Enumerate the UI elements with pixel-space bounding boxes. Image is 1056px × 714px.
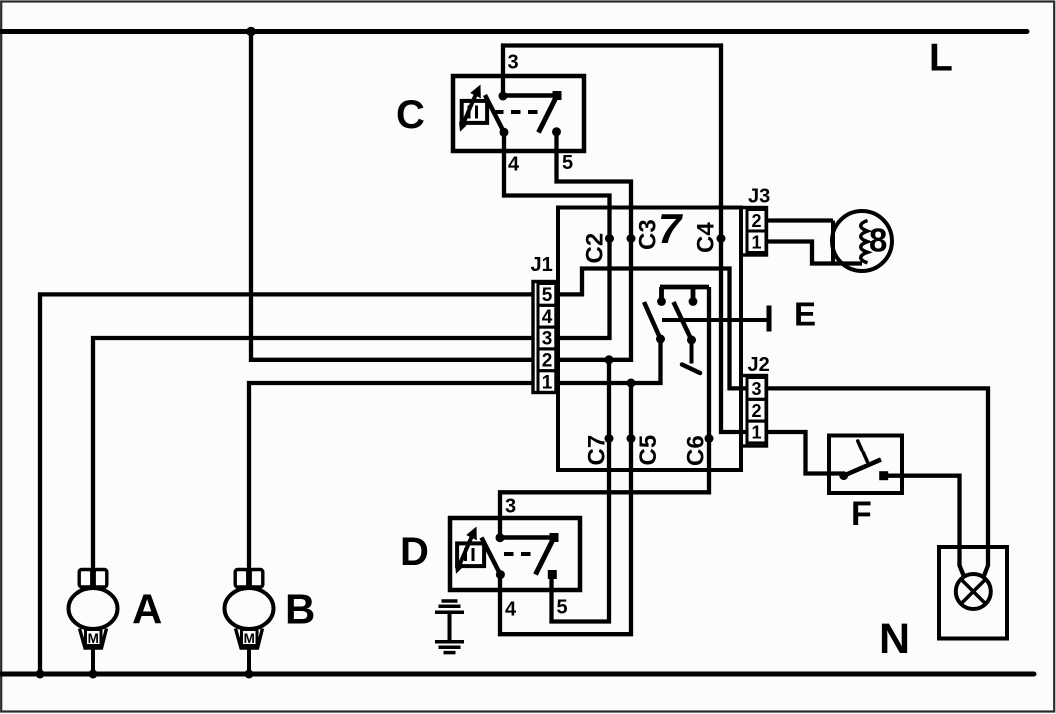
- svg-text:7: 7: [658, 205, 683, 252]
- wire E bracket: [660, 287, 709, 299]
- motor A: [69, 570, 118, 649]
- svg-text:3: 3: [751, 379, 761, 399]
- wire top bus L: [0, 29, 1027, 34]
- node J1-2 branch: [605, 355, 614, 364]
- wire relay C pin 4 to node C2: [504, 132, 610, 238]
- svg-text:C6: C6: [683, 435, 710, 466]
- svg-text:J2: J2: [748, 354, 770, 376]
- svg-text:4: 4: [505, 599, 517, 621]
- wire relay C pin 3 to node C4 to J2 pin 1: [503, 46, 748, 433]
- svg-text:M: M: [244, 631, 255, 646]
- svg-text:C: C: [396, 93, 425, 137]
- svg-text:1: 1: [751, 233, 761, 253]
- svg-text:J1: J1: [531, 254, 553, 276]
- svg-text:4: 4: [542, 307, 553, 328]
- svg-text:L: L: [929, 37, 953, 80]
- switch E pole 1: [644, 302, 665, 344]
- switch F: [829, 436, 902, 494]
- relay C dashed link: [494, 110, 538, 114]
- connector J3: [741, 208, 767, 256]
- node E contact 2: [689, 297, 698, 306]
- node C5: [627, 434, 636, 443]
- wire J3 pin 1 to motor 8: [766, 242, 862, 264]
- wire J1 pin 3 to node C2: [556, 240, 610, 338]
- svg-text:5: 5: [557, 597, 568, 619]
- motor 8: [832, 211, 892, 271]
- wire J1 pin 1 to motor B: [249, 383, 533, 578]
- node top bus junction: [246, 27, 256, 37]
- wire relay C pin 5 to node C3: [557, 132, 632, 239]
- svg-text:8: 8: [869, 222, 887, 259]
- svg-text:3: 3: [505, 496, 516, 518]
- connector J2: [741, 376, 767, 447]
- svg-text:2: 2: [751, 401, 761, 421]
- svg-text:D: D: [400, 530, 429, 574]
- svg-text:C5: C5: [635, 435, 662, 466]
- svg-text:1: 1: [542, 372, 553, 393]
- relay D box: [450, 518, 580, 590]
- motor B: [225, 570, 274, 649]
- ecu box 7: [558, 208, 741, 471]
- svg-text:2: 2: [542, 351, 553, 372]
- relay C coil: [459, 85, 487, 132]
- relay D coil: [455, 527, 484, 574]
- ground: [435, 601, 464, 653]
- wire J1 pin 2 to node C3: [556, 240, 631, 360]
- wire node C5 to relay D pin 4: [500, 383, 631, 634]
- node C7: [605, 434, 614, 443]
- svg-text:3: 3: [542, 329, 553, 350]
- connector J1: [533, 282, 556, 394]
- lamp N: [939, 547, 1007, 639]
- node C2: [605, 234, 614, 243]
- wire J2 pin 3 to lamp N: [766, 388, 988, 577]
- wire J2 pin 1 to switch F: [766, 432, 844, 474]
- relay C contact: [485, 91, 562, 137]
- svg-text:2: 2: [751, 211, 761, 231]
- relay C box: [453, 76, 584, 151]
- wire switch F to lamp N: [884, 476, 964, 577]
- svg-text:C7: C7: [584, 435, 611, 466]
- svg-text:A: A: [132, 586, 162, 633]
- svg-text:3: 3: [508, 52, 519, 74]
- wire E terminal: [662, 306, 769, 332]
- wire J1 pin 5 to bottom bus: [40, 294, 533, 674]
- svg-text:5: 5: [562, 152, 573, 174]
- node bottom bus junction A: [36, 670, 45, 679]
- svg-text:B: B: [285, 586, 315, 633]
- node bottom bus junction C: [245, 670, 254, 679]
- node bottom bus junction B: [89, 670, 98, 679]
- svg-text:4: 4: [508, 154, 520, 176]
- wire J1 pin 5 to J2 pin 3: [556, 269, 748, 389]
- wire motor A to bottom bus: [91, 646, 95, 674]
- node J1-1 branch: [627, 379, 636, 388]
- wire J1 pin 1 to switch E pole 1: [556, 339, 661, 383]
- wire J3 pin 2 to motor 8: [766, 218, 833, 222]
- svg-text:M: M: [88, 631, 99, 646]
- node C6: [705, 434, 714, 443]
- switch E pole 2: [674, 302, 701, 373]
- svg-text:C2: C2: [582, 233, 609, 264]
- svg-text:1: 1: [751, 423, 761, 443]
- svg-text:J3: J3: [748, 186, 770, 208]
- svg-text:N: N: [879, 615, 910, 663]
- wire motor B to bottom bus: [247, 646, 251, 674]
- node C3: [627, 234, 636, 243]
- wire J1 pin 3 to motor A: [93, 338, 533, 578]
- relay D dashed link: [504, 552, 538, 556]
- node C4: [717, 234, 726, 243]
- wire node C6 to relay D pin 3: [500, 287, 709, 538]
- svg-text:5: 5: [542, 285, 553, 306]
- svg-text:E: E: [794, 296, 816, 333]
- relay D contact: [482, 533, 559, 579]
- svg-text:C4: C4: [693, 222, 720, 253]
- svg-text:F: F: [851, 495, 872, 533]
- node E contact 1: [657, 297, 666, 306]
- wire bottom bus: [0, 672, 1034, 677]
- wire top bus to J1 pin 2: [251, 32, 533, 360]
- svg-text:C3: C3: [635, 219, 662, 250]
- wire node C7 to relay D pin 5: [552, 360, 610, 622]
